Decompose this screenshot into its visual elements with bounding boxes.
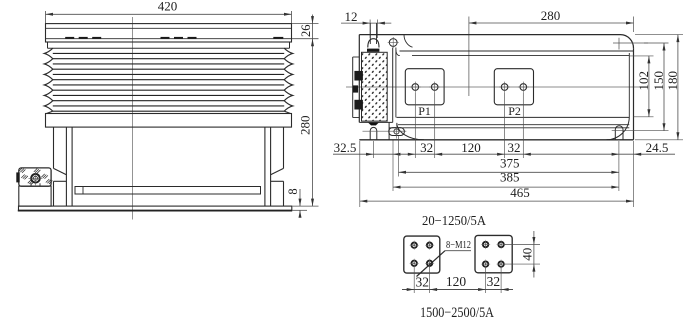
svg-text:465: 465 xyxy=(510,185,530,200)
svg-text:375: 375 xyxy=(500,156,520,171)
svg-text:32: 32 xyxy=(508,140,521,155)
svg-text:180: 180 xyxy=(665,71,680,91)
svg-text:24.5: 24.5 xyxy=(646,140,669,155)
svg-text:32: 32 xyxy=(415,275,429,290)
svg-text:32.5: 32.5 xyxy=(334,140,357,155)
svg-text:32: 32 xyxy=(420,140,433,155)
svg-text:32: 32 xyxy=(487,274,501,289)
svg-text:120: 120 xyxy=(461,140,481,155)
svg-text:120: 120 xyxy=(446,274,467,289)
svg-text:280: 280 xyxy=(541,8,561,23)
svg-text:P1: P1 xyxy=(418,104,431,118)
svg-text:385: 385 xyxy=(500,170,520,185)
svg-text:280: 280 xyxy=(298,115,313,135)
svg-text:8: 8 xyxy=(286,188,300,194)
svg-text:40: 40 xyxy=(520,248,535,261)
svg-text:26: 26 xyxy=(299,25,313,38)
svg-text:150: 150 xyxy=(651,71,666,91)
svg-text:20−1250/5A: 20−1250/5A xyxy=(422,214,487,229)
svg-text:420: 420 xyxy=(158,0,178,14)
svg-text:8−M12: 8−M12 xyxy=(446,239,471,251)
svg-text:1500−2500/5A: 1500−2500/5A xyxy=(420,305,494,321)
svg-text:P2: P2 xyxy=(508,104,521,118)
svg-text:102: 102 xyxy=(636,71,651,91)
svg-text:12: 12 xyxy=(345,9,358,24)
